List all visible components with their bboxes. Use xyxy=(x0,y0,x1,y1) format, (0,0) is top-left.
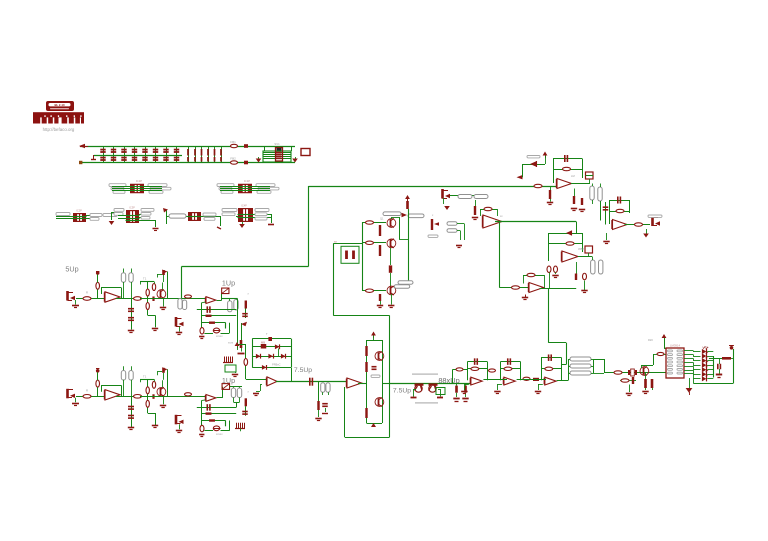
svg-text:5Up: 5Up xyxy=(65,265,78,274)
svg-text:1Up: 1Up xyxy=(222,278,235,287)
svg-text:T1: T1 xyxy=(143,277,147,281)
svg-text:LM: LM xyxy=(571,174,575,178)
svg-text:Q1: Q1 xyxy=(380,217,384,221)
svg-text:MB: MB xyxy=(261,341,265,345)
svg-text:http://befaco.org: http://befaco.org xyxy=(43,127,75,132)
svg-text:FB2: FB2 xyxy=(230,157,236,161)
svg-text:LED: LED xyxy=(702,345,707,349)
svg-text:IC1P: IC1P xyxy=(244,179,250,183)
svg-text:R: R xyxy=(86,388,88,392)
svg-text:R: R xyxy=(86,291,88,295)
svg-text:IC2P: IC2P xyxy=(76,209,82,213)
svg-text:xxxxx: xxxxx xyxy=(216,433,223,436)
svg-text:LM3914: LM3914 xyxy=(670,344,681,348)
svg-text:xxxxx: xxxxx xyxy=(216,335,223,338)
svg-text:IC4P: IC4P xyxy=(241,204,247,208)
svg-text:SV1: SV1 xyxy=(274,142,280,146)
svg-text:4558: 4558 xyxy=(578,247,584,251)
svg-text:7.5Up: 7.5Up xyxy=(393,388,411,395)
svg-text:BL 2-10: BL 2-10 xyxy=(54,103,64,107)
svg-text:xxxx: xxxx xyxy=(228,342,234,345)
svg-text:FB1: FB1 xyxy=(230,140,236,144)
svg-text:7.5Up: 7.5Up xyxy=(294,367,312,374)
svg-text:PRBxC: PRBxC xyxy=(272,363,281,367)
svg-text:IC1P: IC1P xyxy=(136,179,142,183)
svg-text:R20: R20 xyxy=(648,338,653,342)
svg-text:IC3P: IC3P xyxy=(129,206,135,210)
svg-text:T1: T1 xyxy=(143,374,147,378)
